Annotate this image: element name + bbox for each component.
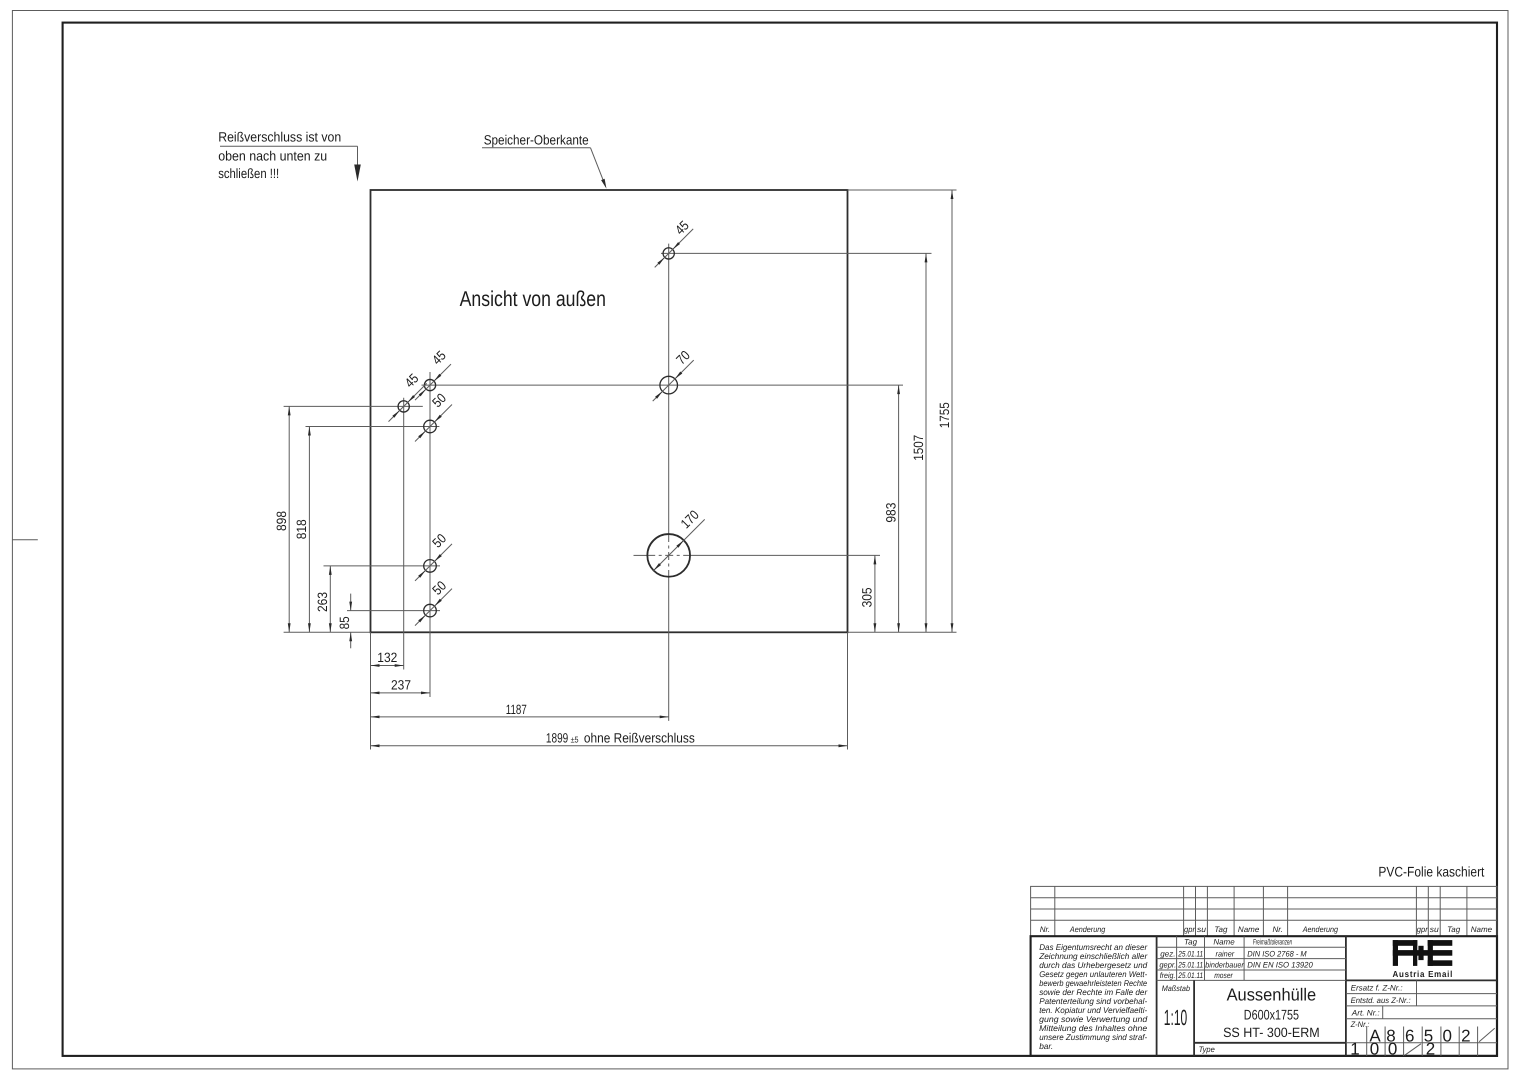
extension line y=253.4 ext 1507 <box>661 252 932 254</box>
centerline vertical through hole 170 dashed <box>668 534 670 577</box>
Z-number bottom diagonal <box>1405 1044 1421 1055</box>
svg-text:Name: Name <box>1471 925 1493 934</box>
svg-text:Maßstab: Maßstab <box>1162 984 1191 993</box>
svg-text:Speicher-Oberkante: Speicher-Oberkante <box>484 132 589 147</box>
centerline horizontal hole 170 right ext 305 <box>690 554 880 556</box>
dim 85 <box>350 594 352 611</box>
svg-text:freig.: freig. <box>1160 971 1176 980</box>
extension line y=565.9 ext 263 <box>324 565 441 567</box>
svg-text:25.01.11: 25.01.11 <box>1177 971 1203 980</box>
svg-text:DIN EN ISO 13920: DIN EN ISO 13920 <box>1247 961 1313 970</box>
svg-text:Austria Email: Austria Email <box>1393 969 1454 979</box>
svg-text:1899: 1899 <box>546 730 568 745</box>
title block divider middle/right <box>1345 936 1347 1056</box>
svg-text:Entstd. aus Z-Nr.:: Entstd. aus Z-Nr.: <box>1351 996 1411 1005</box>
svg-text:gepr.: gepr. <box>1159 961 1176 970</box>
svg-text:gpr: gpr <box>1417 925 1428 934</box>
revision table row lines <box>1031 897 1497 899</box>
svg-text:moser: moser <box>1214 971 1233 980</box>
dim 1899 line <box>371 745 848 747</box>
revision table border <box>1031 886 1497 936</box>
dim 305 <box>874 555 876 632</box>
svg-text:PVC-Folie kaschiert: PVC-Folie kaschiert <box>1378 863 1484 879</box>
dim 1507 <box>925 253 927 632</box>
dim 263 <box>329 566 331 632</box>
dim D70 leader <box>653 360 694 401</box>
logo Austria Email <box>1393 940 1453 966</box>
extension below right edge <box>847 632 849 749</box>
svg-text:gez.: gez. <box>1160 949 1175 958</box>
extension bottom edge right <box>848 631 957 633</box>
extension top edge right <box>848 189 957 191</box>
svg-text:Ansicht von außen: Ansicht von außen <box>460 287 606 311</box>
left edge centering tick <box>12 539 37 541</box>
svg-text:binderbauer: binderbauer <box>1205 961 1244 970</box>
svg-text:bar.: bar. <box>1039 1041 1053 1051</box>
extension below left edge <box>370 632 372 749</box>
Z-number top diagonal <box>1479 1028 1495 1042</box>
svg-text:0: 0 <box>1370 1040 1379 1059</box>
Z-number cell dividers top <box>1366 1027 1368 1043</box>
svg-text:Nr.: Nr. <box>1040 925 1050 934</box>
centerline horizontal hole 170 left <box>634 554 648 556</box>
svg-text:50: 50 <box>429 390 449 410</box>
svg-text:45: 45 <box>402 371 422 391</box>
svg-text:6: 6 <box>1405 1026 1414 1045</box>
svg-text:Name: Name <box>1213 938 1235 947</box>
svg-text:45: 45 <box>429 348 449 368</box>
note leader arrow <box>354 165 361 182</box>
centerline horizontal y=406.4 ext 898 <box>284 405 423 407</box>
dim D50 a leader <box>415 405 452 442</box>
svg-text:oben nach unten zu: oben nach unten zu <box>218 149 327 164</box>
svg-text:gpr: gpr <box>1184 925 1195 934</box>
svg-text:70: 70 <box>673 348 693 368</box>
svg-text:818: 818 <box>294 519 309 539</box>
Speicher leader line <box>482 147 591 149</box>
title block divider copyright/middle <box>1156 936 1158 1056</box>
dim D45 left-lower leader <box>389 383 427 421</box>
dim 1187 <box>371 716 669 718</box>
svg-text:1755: 1755 <box>937 402 952 428</box>
dim D45 top leader <box>655 229 694 268</box>
svg-text:0: 0 <box>1442 1026 1451 1045</box>
hole D50 b <box>424 560 437 573</box>
hole D70 <box>660 376 678 394</box>
svg-text:Tag: Tag <box>1184 938 1198 947</box>
dim 818 <box>308 427 310 633</box>
svg-text:D600x1755: D600x1755 <box>1244 1006 1299 1022</box>
centerline vertical x=668.7 lower <box>668 577 670 721</box>
dim 132 <box>371 665 404 667</box>
hole D45 left lower <box>398 401 409 412</box>
svg-text:Freimaßtoleranzen: Freimaßtoleranzen <box>1253 938 1293 947</box>
svg-text:Nr.: Nr. <box>1273 925 1283 934</box>
hole D170 <box>647 534 690 577</box>
svg-text:Aenderung: Aenderung <box>1069 925 1106 934</box>
dim D50 b leader <box>415 544 452 581</box>
hole D50 c <box>424 604 437 617</box>
extension line y=426.5 ext 818 <box>306 426 440 428</box>
svg-text:305: 305 <box>860 587 875 607</box>
svg-text:Name: Name <box>1238 925 1260 934</box>
centerline horizontal hole 170 dashed <box>647 554 690 556</box>
svg-text:schließen !!!: schließen !!! <box>218 166 279 181</box>
title block outer border <box>1031 936 1497 1056</box>
svg-text:0: 0 <box>1388 1040 1397 1059</box>
dim D45 left-upper leader <box>415 364 451 400</box>
svg-text:898: 898 <box>274 511 289 531</box>
extension line y=610.6 ext 85 <box>347 610 440 612</box>
dim 1755 <box>951 190 953 632</box>
svg-text:unsere Zustimmung sind straf-: unsere Zustimmung sind straf- <box>1039 1032 1147 1042</box>
svg-text:ohne Reißverschluss: ohne Reißverschluss <box>584 730 695 745</box>
svg-text:Tag: Tag <box>1447 925 1461 934</box>
svg-text:SS HT- 300-ERM: SS HT- 300-ERM <box>1223 1025 1320 1040</box>
svg-text:170: 170 <box>678 507 702 531</box>
svg-text:rainer: rainer <box>1216 949 1235 958</box>
svg-text:±5: ±5 <box>571 734 579 744</box>
Speicher leader arrow <box>601 179 606 189</box>
extension bottom edge left <box>284 631 371 633</box>
svg-text:132: 132 <box>377 650 397 665</box>
svg-text:45: 45 <box>672 218 692 238</box>
svg-text:Ersatz f. Z-Nr.:: Ersatz f. Z-Nr.: <box>1351 984 1403 993</box>
approval table lines <box>1157 946 1346 948</box>
centerline vertical x=668.7 upper <box>668 244 670 534</box>
svg-text:Art. Nr.:: Art. Nr.: <box>1351 1009 1380 1018</box>
svg-text:85: 85 <box>337 616 352 629</box>
svg-text:Aenderung: Aenderung <box>1302 925 1339 934</box>
svg-text:2: 2 <box>1461 1026 1470 1045</box>
Z-number area lines <box>1346 993 1497 995</box>
dim D50 c leader <box>415 589 452 626</box>
dim 983 <box>898 385 900 632</box>
hole D50 a <box>424 420 437 433</box>
svg-text:1:10: 1:10 <box>1164 1005 1187 1030</box>
svg-text:237: 237 <box>391 678 411 693</box>
scale cell <box>1193 980 1195 1056</box>
svg-text:su: su <box>1197 925 1207 934</box>
svg-text:Reißverschluss ist von: Reißverschluss ist von <box>218 130 341 145</box>
svg-text:su: su <box>1430 925 1440 934</box>
svg-text:1: 1 <box>1350 1040 1359 1059</box>
svg-text:25.01.11: 25.01.11 <box>1177 949 1203 958</box>
type row <box>1194 1042 1346 1044</box>
svg-text:Aussenhülle: Aussenhülle <box>1227 984 1317 1004</box>
svg-text:263: 263 <box>315 592 330 612</box>
hole D45 left upper <box>424 379 435 390</box>
svg-text:983: 983 <box>883 503 898 523</box>
dim 898 <box>288 406 290 632</box>
Z-number cell dividers bottom <box>1366 1043 1368 1056</box>
svg-text:1187: 1187 <box>506 702 527 717</box>
svg-text:25.01.11: 25.01.11 <box>1177 961 1203 970</box>
centerline vertical x=430 <box>429 372 431 697</box>
note leader line <box>220 145 358 147</box>
outer shell outline rectangle <box>371 190 848 632</box>
dim 237 <box>371 692 431 694</box>
svg-text:1507: 1507 <box>911 435 926 461</box>
revision table column lines <box>1054 886 1056 936</box>
svg-text:50: 50 <box>429 531 449 551</box>
centerline horizontal y=385.1 <box>422 384 904 386</box>
centerline vertical x=403.7 <box>403 398 405 670</box>
dim D170 leader <box>654 519 705 570</box>
svg-text:Type: Type <box>1199 1045 1216 1054</box>
hole D45 top <box>663 248 674 259</box>
svg-text:2: 2 <box>1426 1040 1435 1059</box>
svg-text:Tag: Tag <box>1214 925 1228 934</box>
svg-text:DIN ISO 2768 - M: DIN ISO 2768 - M <box>1247 949 1307 958</box>
